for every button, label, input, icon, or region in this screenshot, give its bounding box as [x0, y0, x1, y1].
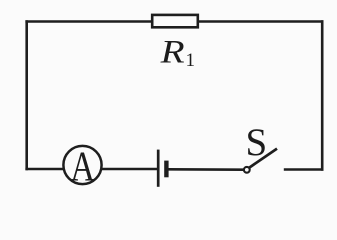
wire: bottom, left corner to ammeter — [25, 168, 63, 171]
switch S: contact circle — [244, 167, 250, 173]
switch S: lever arm — [249, 149, 277, 168]
wire: ammeter to battery — [102, 168, 158, 171]
wire: right side vertical — [321, 20, 324, 171]
battery cell: short negative plate — [164, 161, 168, 178]
wire: battery to switch — [168, 168, 243, 171]
wire: top side, left of R1 — [25, 20, 152, 23]
svg-text:A: A — [70, 144, 95, 190]
battery cell: long positive plate — [157, 150, 160, 187]
ammeter — [63, 146, 101, 184]
svg-text:R: R — [160, 33, 185, 69]
svg-text:1: 1 — [186, 50, 196, 71]
wire: top side, right of R1 — [198, 20, 324, 23]
resistor R1 — [152, 15, 198, 27]
wire: switch to bottom-right corner — [284, 168, 324, 171]
svg-text:S: S — [246, 121, 268, 164]
wire: left side vertical — [25, 20, 28, 170]
